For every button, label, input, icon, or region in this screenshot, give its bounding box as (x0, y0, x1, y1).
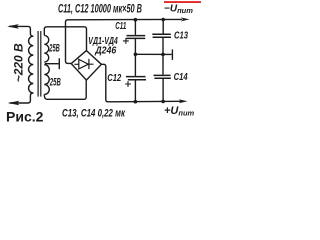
svg-text:С13: С13 (174, 30, 188, 42)
junction node top C11 (134, 18, 138, 22)
capacitor C12 (134, 54, 136, 76)
junction node top C13 (161, 18, 165, 22)
transformer secondary winding II (44, 65, 49, 95)
arrowhead right bottom (179, 99, 188, 103)
plus sign C11 (123, 38, 129, 44)
svg-text:Рис.2: Рис.2 (6, 109, 44, 125)
junction node middle C11/C12 (134, 53, 138, 57)
wire: secondary center tap lead (45, 63, 59, 65)
common rail terminal bar (171, 49, 173, 60)
center tap terminal bar (58, 58, 60, 69)
capacitor C11 (134, 20, 136, 35)
negative rail (top, -Upit) (66, 19, 183, 63)
plus sign C12 (125, 81, 131, 87)
wire: secondary top lead to bridge (44, 27, 86, 51)
diode symbol inside bridge (74, 59, 93, 69)
svg-text:~220 В: ~220 В (12, 43, 26, 82)
arrowhead left top (7, 24, 19, 29)
positive rail (bottom, +Upit) (101, 64, 181, 102)
bridge rectifier VD1-VD4 diamond (71, 51, 101, 81)
transformer T1 primary winding (29, 36, 34, 93)
wire: secondary bottom lead to bridge (44, 80, 86, 99)
svg-text:−Uпит: −Uпит (164, 4, 193, 16)
svg-text:25В: 25В (49, 43, 60, 55)
svg-text:С12: С12 (107, 73, 121, 84)
svg-text:Д246: Д246 (94, 46, 116, 57)
svg-text:С11: С11 (115, 21, 126, 32)
capacitor C13 (162, 20, 164, 34)
svg-text:+Uпит: +Uпит (164, 105, 195, 118)
svg-text:С11, С12 10000 мк×50 В: С11, С12 10000 мк×50 В (58, 4, 142, 16)
common (middle) rail (135, 53, 171, 55)
junction node bottom C12 (134, 100, 138, 104)
arrowhead right top (181, 17, 190, 21)
svg-text:С14: С14 (174, 71, 188, 83)
capacitor C14 (162, 54, 164, 74)
transformer secondary winding I (44, 35, 48, 62)
transformer core (38, 31, 41, 97)
red marker line (164, 1, 201, 3)
wire: AC input upper lead with left arrow (9, 26, 33, 36)
svg-text:25В: 25В (49, 76, 61, 88)
wire: AC input lower lead with left arrow (10, 93, 34, 103)
junction node bottom C14 (161, 100, 165, 104)
svg-text:С13, С14 0,22 мк: С13, С14 0,22 мк (62, 107, 126, 119)
junction node middle C13/C14 (161, 53, 165, 57)
arrowhead left bottom (8, 101, 20, 106)
